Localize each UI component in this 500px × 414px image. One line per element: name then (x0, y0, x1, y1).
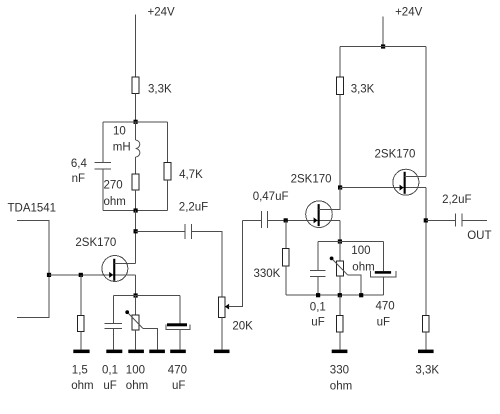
node G junction (supply rail) (381, 44, 385, 48)
svg-text:330: 330 (330, 364, 349, 376)
node A junction (top of RLC filter) (134, 120, 138, 124)
trimmer VR2 wiper dot (330, 257, 334, 261)
svg-text:6,4: 6,4 (71, 158, 88, 170)
wire trimmer VR1 branch upper (135, 296, 137, 316)
svg-text:2SK170: 2SK170 (75, 237, 116, 249)
svg-text:2SK170: 2SK170 (375, 149, 416, 161)
svg-text:330K: 330K (254, 268, 281, 280)
wire output node to C8 (426, 219, 456, 221)
svg-text:1,5: 1,5 (72, 364, 88, 376)
transistor Q2 channel bar (318, 204, 320, 226)
wire Q1 drain horizontal (114, 262, 135, 264)
wire stage1 source rail (114, 295, 181, 297)
wire C6 to rail2 bottom (317, 276, 319, 295)
node L junction (rail2/R7) (338, 293, 342, 297)
svg-text:470: 470 (168, 364, 187, 376)
node B junction (bottom of RLC filter) (134, 208, 138, 212)
wire rail to R5 (339, 47, 341, 78)
transistor Q2 2SK170 circle (306, 201, 333, 228)
wire left branch lower (102, 169, 104, 211)
capacitor C2 2,2uF (coupling) (184, 224, 186, 239)
wire R5 to node H (339, 94, 341, 187)
svg-text:20K: 20K (232, 321, 253, 333)
svg-text:3,3K: 3,3K (148, 84, 172, 96)
ground (VR1 wiper) (149, 350, 165, 354)
trimmer VR1 wiper dot (125, 310, 129, 314)
chip TDA1541 output bracket (17, 221, 49, 318)
node E junction (gate bias tap) (79, 273, 83, 277)
transistor Q2 gate arrow (314, 217, 318, 223)
svg-text:3,3K: 3,3K (415, 364, 439, 376)
wire right branch lower (167, 180, 169, 211)
resistor R3 4,7K (164, 162, 171, 180)
svg-text:4,7K: 4,7K (179, 169, 203, 181)
svg-text:mH: mH (113, 141, 131, 153)
wire riser to C5 (242, 219, 261, 221)
wire node C to C2 (136, 230, 185, 232)
capacitor C6 0,1uF (310, 270, 326, 272)
capacitor C4 470uF minus cup (166, 324, 190, 329)
ground (VR1) (128, 350, 144, 354)
wire trimmer VR2 branch upper (339, 242, 341, 262)
wire R4 to ground (80, 332, 82, 350)
wire Q2 drain horizontal and up (319, 188, 340, 210)
wire +24V lead stage 1 (135, 15, 137, 78)
wire Q3 gate/source line (340, 187, 426, 189)
potentiometer P1 20K body (218, 297, 225, 318)
trimmer VR1 100 ohm body (132, 315, 139, 330)
wire node B down to Q1 drain (135, 211, 137, 264)
wire R1 to node A (135, 94, 137, 122)
wire C7 branch upper (382, 242, 384, 272)
svg-text:ohm: ohm (352, 262, 374, 274)
wire right branch upper (167, 122, 169, 163)
inductor L1 10mH (136, 140, 140, 157)
ground (C3) (106, 350, 122, 354)
wire C4 branch upper (179, 296, 181, 324)
capacitor C7 470uF minus cup (370, 271, 396, 277)
transistor Q3 channel bar (404, 172, 406, 194)
svg-text:uF: uF (103, 380, 116, 392)
trimmer VR2 100 ohm body (337, 261, 344, 276)
wire stage2 source top rail (318, 241, 383, 243)
ground (P1 20K) (214, 350, 230, 354)
wire pot to ground (221, 317, 223, 349)
svg-text:TDA1541: TDA1541 (8, 202, 57, 214)
node I junction (Q2 gate / R6) (284, 218, 288, 222)
wire C6 branch upper (317, 242, 319, 271)
resistor R7 330 ohm (336, 315, 343, 332)
wire Q1 gate/source line (49, 274, 136, 276)
ground (C4) (170, 350, 186, 354)
node D junction (TDA output to Q1 gate) (47, 273, 51, 277)
svg-text:+24V: +24V (148, 7, 176, 19)
wire stage2 source bottom rail (286, 294, 384, 296)
svg-text:270: 270 (104, 180, 123, 192)
svg-text:ohm: ohm (330, 381, 352, 393)
wire left branch upper (102, 122, 104, 163)
wire VR2 wiper diagonal (333, 260, 348, 275)
ground (R8) (418, 350, 434, 354)
wire stage 2 top rail (340, 46, 426, 48)
svg-text:2,2uF: 2,2uF (442, 194, 471, 206)
wire C3 to ground (113, 329, 115, 350)
resistor R2 270 ohm (132, 174, 139, 190)
svg-text:+24V: +24V (395, 7, 423, 19)
wire Q2 source down (339, 220, 341, 241)
svg-text:ohm: ohm (104, 196, 126, 208)
transistor Q1 gate arrow (109, 272, 113, 278)
svg-text:ohm: ohm (71, 380, 93, 392)
node C junction (stage 1 output tap) (134, 229, 138, 233)
wire C3 branch upper (113, 296, 115, 324)
wire P1 wiper riser (229, 220, 243, 306)
svg-text:100: 100 (351, 245, 370, 257)
svg-text:470: 470 (376, 301, 395, 313)
wire Q1 source drop (135, 275, 137, 296)
ground (R4) (73, 350, 89, 354)
resistor R1 3,3K (stage 1 drain load) (132, 77, 139, 94)
wire R7 to ground (339, 332, 341, 350)
svg-text:ohm: ohm (126, 380, 148, 392)
wire C2 to pot drop (191, 231, 222, 296)
node N junction (output node) (424, 218, 428, 222)
wire rail2 to R7 (339, 295, 341, 315)
ground (R7) (332, 350, 348, 354)
capacitor C7 470uF plus plate (375, 271, 391, 274)
svg-text:2SK170: 2SK170 (291, 174, 332, 186)
wire R8 to ground (425, 332, 427, 350)
resistor R8 3,3K (Q3 source load) (422, 315, 429, 332)
wire VR1 to ground (135, 330, 137, 349)
wire Q3 drain horizontal (405, 175, 426, 177)
resistor R6 330K (282, 249, 289, 266)
resistor R4 1,5 ohm (77, 316, 84, 332)
svg-text:2,2uF: 2,2uF (179, 201, 208, 213)
capacitor C3 0,1uF (105, 323, 123, 325)
wire RLC top rail (103, 121, 168, 123)
resistor R5 3,3K (stage 2 drain load) (337, 77, 344, 94)
wire RLC bottom rail (103, 210, 168, 212)
svg-text:3,3K: 3,3K (351, 84, 375, 96)
node M junction (rail2/wiper) (359, 293, 363, 297)
wire R6 330K branch upper (285, 220, 287, 248)
svg-text:0,1: 0,1 (102, 364, 118, 376)
svg-text:10: 10 (113, 126, 126, 138)
svg-text:OUT: OUT (467, 230, 491, 242)
wire R4 1,5 ohm branch upper (80, 275, 82, 316)
svg-text:0,1: 0,1 (310, 301, 326, 313)
svg-text:nF: nF (72, 173, 85, 185)
capacitor C5 0,47uF (261, 211, 263, 228)
wire Q3 source down to output node (425, 188, 427, 316)
node H junction (Q2 drain / Q3 gate) (338, 185, 342, 189)
wire +24V lead stage 2 (382, 17, 384, 47)
transistor Q1 channel bar (113, 259, 115, 281)
wire inductor to R2 (135, 157, 137, 174)
pot P1 wiper arrow (225, 304, 229, 310)
svg-text:0,47uF: 0,47uF (253, 191, 289, 203)
wire C4 to ground (179, 330, 181, 350)
transistor Q3 2SK170 circle (393, 169, 419, 195)
capacitor C8 2,2uF (output) (454, 213, 456, 226)
wire R2 to bottom rail (135, 190, 137, 211)
capacitor C1 6,4nF (95, 161, 112, 163)
wire rail to Q3 drain drop (425, 47, 427, 177)
wire middle branch top (135, 122, 137, 140)
node F junction (Q1 source node) (134, 293, 138, 297)
wire C5 to Q2 gate (268, 219, 340, 221)
wire C8 to OUT (462, 219, 487, 221)
svg-text:uF: uF (172, 380, 185, 392)
node K junction (rail2/C6) (316, 293, 320, 297)
svg-text:uF: uF (311, 317, 324, 329)
wire R6 to rail2 (285, 266, 287, 295)
transistor Q3 gate arrow (400, 185, 404, 191)
svg-text:uF: uF (377, 317, 390, 329)
wire VR2 to rail2 bottom (339, 276, 341, 295)
capacitor C4 470uF plus plate (167, 323, 187, 326)
wire C7 to rail2 bottom (382, 277, 384, 295)
svg-text:100: 100 (126, 364, 145, 376)
node J junction (Q2 source node) (338, 239, 342, 243)
transistor Q1 2SK170 circle (102, 256, 128, 282)
wire VR1 wiper diagonal to ground (128, 313, 143, 328)
